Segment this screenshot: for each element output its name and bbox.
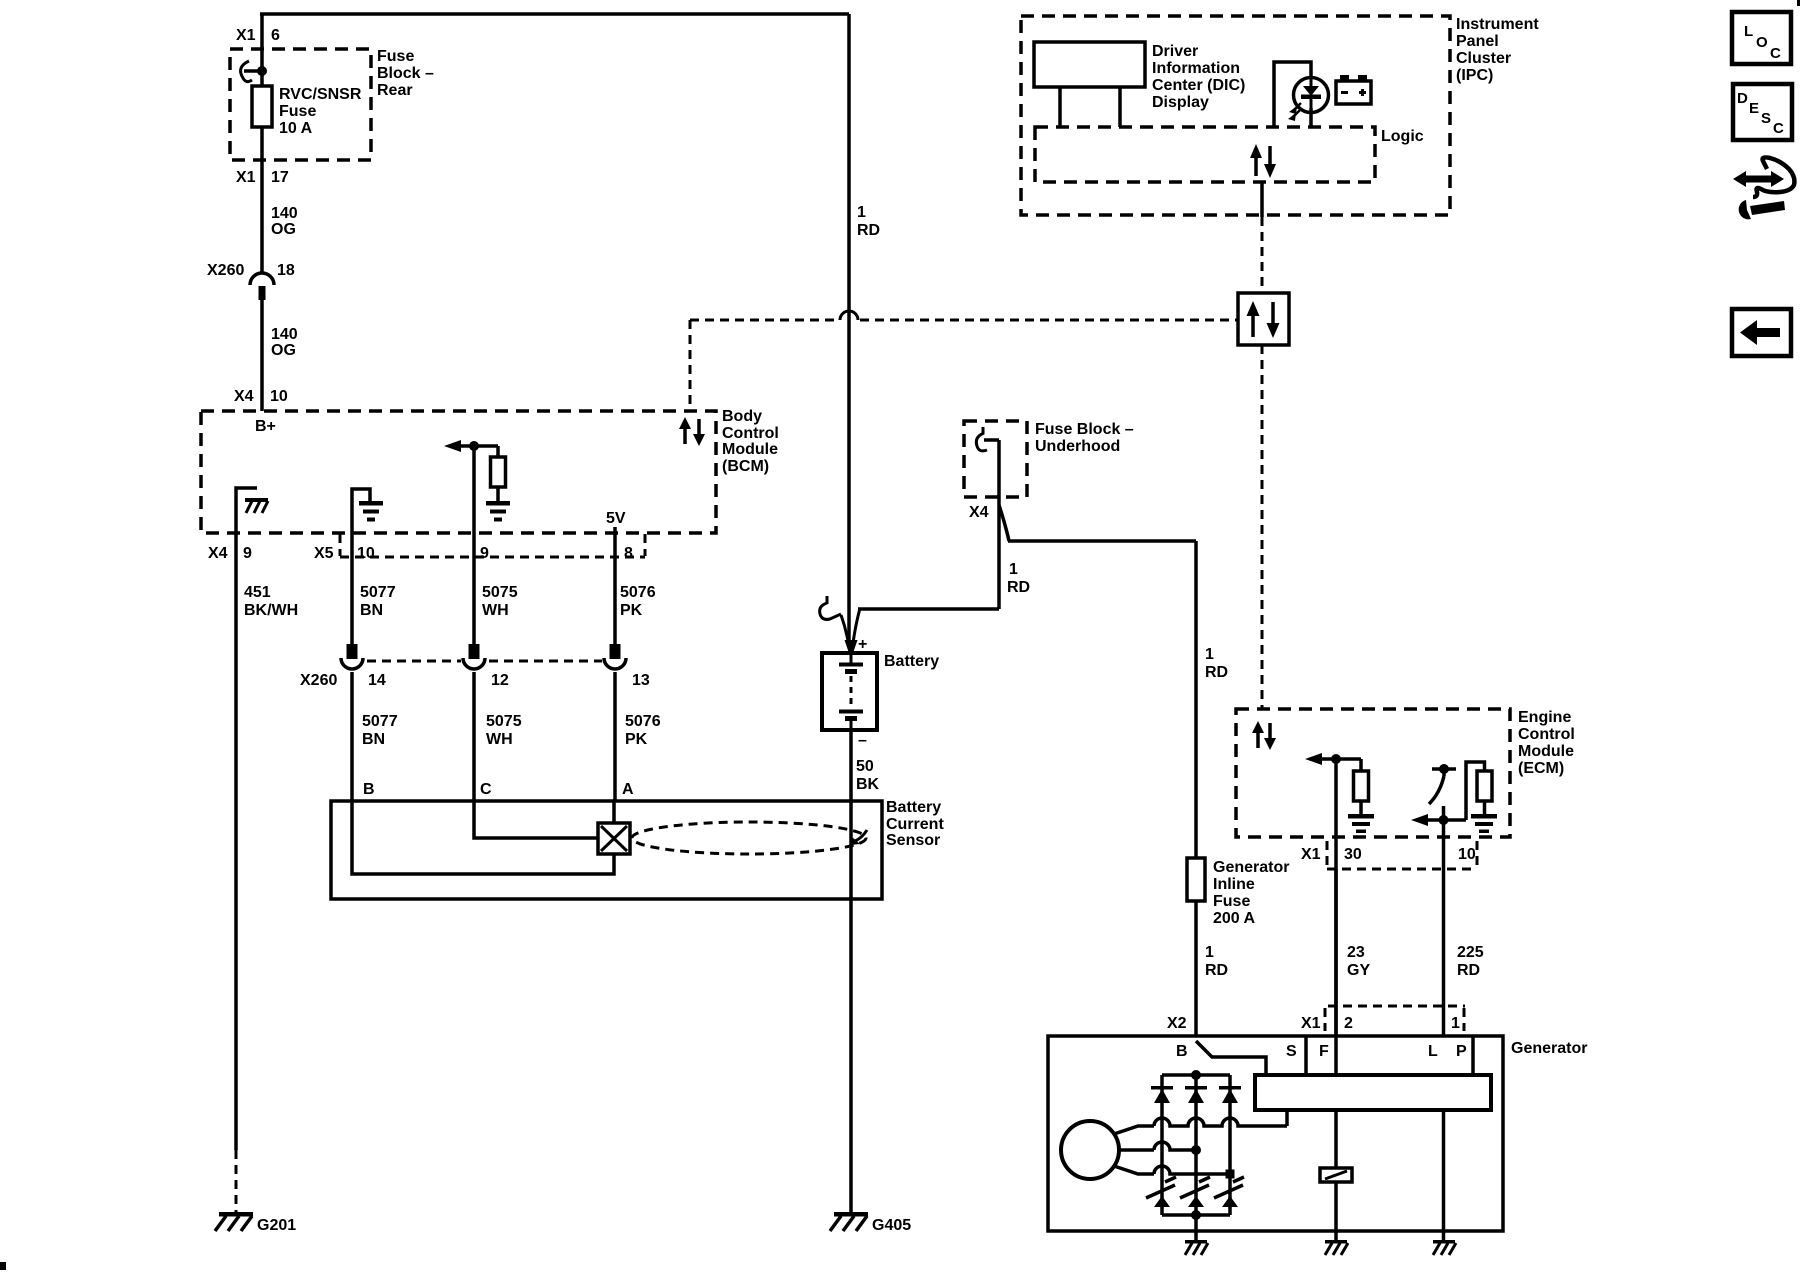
junction dot pin10 node: [1439, 815, 1449, 825]
fuse clip contact: [241, 61, 252, 82]
ground G405: [834, 1212, 868, 1217]
corner artifact bottom left: [0, 1262, 6, 1270]
junction dot pin30 node: [1331, 754, 1341, 764]
sensor current loop (dashed ellipse): [632, 822, 866, 854]
body control module (BCM) dashed box: [201, 411, 716, 533]
svg-text:S: S: [1286, 1043, 1297, 1060]
wire: DIC display legs: [1058, 87, 1062, 127]
ground G201: [219, 1212, 253, 1217]
svg-text:14: 14: [368, 672, 386, 689]
svg-text:–: –: [858, 732, 867, 749]
svg-text:BN: BN: [360, 602, 383, 619]
svg-text:X1: X1: [236, 169, 256, 186]
svg-text:Fuse: Fuse: [377, 48, 414, 65]
svg-text:Cluster: Cluster: [1456, 50, 1511, 67]
wire: B to regulator: [1196, 1041, 1266, 1075]
icon back arrow: [1732, 309, 1791, 356]
BCM internal ground (chassis) wire: [236, 488, 257, 533]
svg-text:OG: OG: [271, 221, 296, 238]
svg-text:2: 2: [1344, 1015, 1353, 1032]
BCM sense output arrow: [457, 444, 498, 448]
svg-text:Fuse: Fuse: [1213, 893, 1250, 910]
svg-text:1: 1: [1009, 561, 1018, 578]
generator ground 2: [1325, 1240, 1347, 1244]
ECM second ground symbol: [1471, 814, 1497, 819]
rectifier branch 2: [1194, 1075, 1198, 1215]
ECM switch (regulator control): [1439, 764, 1449, 774]
svg-text:12: 12: [491, 672, 509, 689]
svg-text:PK: PK: [625, 731, 648, 748]
rectifier branch 1: [1160, 1075, 1164, 1215]
svg-text:BK/WH: BK/WH: [244, 602, 298, 619]
svg-text:Information: Information: [1152, 60, 1240, 77]
svg-text:C: C: [1770, 45, 1781, 62]
svg-text:GY: GY: [1347, 962, 1370, 979]
wire: branch to battery: [858, 607, 999, 611]
BCM resistor ground symbol: [486, 501, 510, 506]
svg-text:BK: BK: [856, 776, 880, 793]
generator inline fuse 200 A: [1187, 858, 1205, 901]
svg-text:5077: 5077: [360, 584, 396, 601]
stator phase 1 wire: [1114, 1126, 1154, 1134]
svg-text:WH: WH: [482, 602, 509, 619]
svg-text:RVC/SNSR: RVC/SNSR: [279, 86, 362, 103]
battery G: [822, 653, 877, 730]
sensor internal wire A: [612, 801, 616, 823]
svg-text:G405: G405: [872, 1217, 911, 1234]
ECM serial data arrows: [1256, 731, 1260, 748]
svg-text:5076: 5076: [625, 713, 661, 730]
sensor internal wire B: [352, 801, 614, 874]
svg-text:Generator: Generator: [1213, 859, 1289, 876]
rectifier negative rail: [1162, 1213, 1230, 1217]
svg-text:B: B: [363, 781, 375, 798]
svg-text:140: 140: [271, 205, 298, 222]
wire 451 BK/WH: [234, 533, 238, 1150]
svg-text:X4: X4: [969, 504, 989, 521]
battery B+ junction clip: [826, 596, 829, 604]
svg-text:X1: X1: [1301, 1015, 1321, 1032]
generator ground 1: [1185, 1240, 1207, 1244]
connector X260 dashed strip: [367, 660, 461, 663]
svg-text:225: 225: [1457, 944, 1484, 961]
indicator LED (charge telltale): [1294, 78, 1329, 113]
svg-text:Battery: Battery: [884, 653, 939, 670]
svg-text:5075: 5075: [486, 713, 522, 730]
svg-text:L: L: [1428, 1043, 1438, 1060]
svg-text:RD: RD: [1205, 664, 1228, 681]
svg-text:Rear: Rear: [377, 82, 413, 99]
wire: ECM pin 10 (switch contact): [1442, 806, 1446, 1075]
wire: 5V reference: [613, 527, 617, 645]
junction dot at fuse feed: [257, 66, 267, 76]
wire 5077 BN (lower): [350, 672, 354, 801]
svg-text:Current: Current: [886, 816, 944, 833]
svg-text:13: 13: [632, 672, 650, 689]
svg-text:(IPC): (IPC): [1456, 67, 1493, 84]
connector X260 pin 13: [610, 644, 621, 659]
zener diode Z3: [1222, 1196, 1238, 1207]
svg-text:C: C: [480, 781, 492, 798]
svg-text:X260: X260: [207, 262, 244, 279]
rectifier branch 3: [1228, 1075, 1232, 1215]
connector X260 pin 12: [469, 644, 480, 659]
serial data link box: [1238, 293, 1289, 345]
svg-text:5077: 5077: [362, 713, 398, 730]
svg-text:X1: X1: [1301, 846, 1321, 863]
svg-text:1: 1: [1205, 944, 1214, 961]
svg-text:1: 1: [1451, 1015, 1460, 1032]
stator phase 2 wire: [1119, 1148, 1154, 1152]
svg-text:9: 9: [243, 545, 252, 562]
field winding (slashed box): [1320, 1168, 1352, 1182]
corner artifact top right: [1797, 0, 1800, 6]
svg-text:5075: 5075: [482, 584, 518, 601]
svg-text:X1: X1: [236, 27, 256, 44]
svg-text:B+: B+: [255, 418, 276, 435]
wire: ECM pin 30 output: [1334, 759, 1338, 1075]
svg-text:X5: X5: [314, 545, 334, 562]
svg-text:P: P: [1456, 1043, 1467, 1060]
svg-text:1: 1: [857, 204, 866, 221]
svg-text:Center (DIC): Center (DIC): [1152, 77, 1245, 94]
svg-text:Control: Control: [1518, 726, 1575, 743]
svg-text:451: 451: [244, 584, 271, 601]
svg-text:8: 8: [624, 545, 633, 562]
svg-text:Battery: Battery: [886, 799, 941, 816]
battery positive merge arrows: [841, 615, 849, 644]
sensor element (X box): [598, 823, 630, 854]
generator terminal divider P: [1471, 1036, 1475, 1075]
svg-text:B: B: [1176, 1043, 1188, 1060]
svg-text:X2: X2: [1167, 1015, 1187, 1032]
svg-text:Sensor: Sensor: [886, 832, 940, 849]
wire: branch to generator (1 RD): [999, 505, 1009, 541]
ECM second resistor: [1466, 762, 1485, 820]
logic serial data arrows: [1254, 156, 1258, 176]
svg-text:RD: RD: [1205, 962, 1228, 979]
ECM field sense arrow: [1318, 757, 1361, 761]
driver information center (DIC) display: [1034, 42, 1145, 87]
svg-text:D: D: [1737, 90, 1748, 107]
ECM lamp drive arrow: [1424, 818, 1466, 822]
svg-text:RD: RD: [857, 222, 880, 239]
wire: regulator to stator sense: [1285, 1110, 1289, 1126]
zener diode Z1: [1154, 1196, 1170, 1207]
svg-text:10: 10: [1458, 846, 1476, 863]
sensor internal wire C: [474, 801, 598, 838]
svg-text:RD: RD: [1457, 962, 1480, 979]
svg-text:Body: Body: [722, 408, 762, 425]
svg-text:Driver: Driver: [1152, 43, 1198, 60]
svg-text:50: 50: [856, 758, 874, 775]
BCM serial data arrows: [683, 427, 687, 444]
svg-text:BN: BN: [362, 731, 385, 748]
generator ground 3: [1433, 1240, 1455, 1244]
svg-text:L: L: [1744, 23, 1753, 40]
svg-text:(ECM): (ECM): [1518, 760, 1564, 777]
fuse F RVC/SNSR 10 A: [252, 86, 272, 127]
wire: generator B feed: [1194, 901, 1198, 1075]
wire 451 dashed tail: [235, 1150, 238, 1212]
LED light rays: [1294, 103, 1301, 110]
svg-text:F: F: [1319, 1043, 1329, 1060]
wire: L lead through regulator: [1442, 1110, 1446, 1243]
wire 5076 PK (lower): [613, 672, 617, 801]
svg-text:140: 140: [271, 326, 298, 343]
engine control module (ECM) dashed box: [1236, 709, 1510, 837]
fuse block - underhood dashed box: [964, 421, 1027, 497]
svg-text:E: E: [1749, 100, 1759, 117]
BCM internal ground (earth) wire: [352, 489, 370, 533]
wire: serial data to BCM (dashed): [690, 319, 838, 322]
BCM chassis ground symbol: [245, 498, 268, 502]
IPC logic dashed box: [1035, 127, 1375, 182]
wire: rectifier to case ground: [1194, 1215, 1198, 1243]
svg-text:Control: Control: [722, 425, 779, 442]
svg-text:Inline: Inline: [1213, 876, 1255, 893]
connector X260 pin 14 (blade and socket): [347, 644, 358, 659]
svg-text:200 A: 200 A: [1213, 910, 1256, 927]
svg-text:9: 9: [480, 545, 489, 562]
svg-text:18: 18: [277, 262, 295, 279]
svg-text:G201: G201: [257, 1217, 296, 1234]
svg-text:X4: X4: [208, 545, 228, 562]
svg-text:5076: 5076: [620, 584, 656, 601]
ECM pull-up resistor (pin 30): [1359, 759, 1363, 771]
svg-text:Instrument: Instrument: [1456, 16, 1539, 33]
wire: telltale loop: [1274, 62, 1311, 127]
wire 5075 WH (lower): [472, 672, 476, 801]
fuse block - rear (dashed outline): [230, 49, 371, 160]
svg-text:Fuse: Fuse: [279, 103, 316, 120]
icon DESC: [1733, 84, 1792, 140]
battery telltale icon: [1336, 81, 1371, 104]
svg-text:Block –: Block –: [377, 65, 434, 82]
svg-text:PK: PK: [620, 602, 643, 619]
voltage regulator: [1255, 1075, 1491, 1110]
underhood fuse clip: [982, 427, 985, 434]
svg-text:WH: WH: [486, 731, 513, 748]
BCM pull-up resistor R: [496, 446, 500, 457]
wire: fused feed vertical (X1-6 to BCM B+): [260, 14, 264, 272]
svg-text:Underhood: Underhood: [1035, 438, 1120, 455]
svg-text:17: 17: [271, 169, 289, 186]
rectifier positive rail: [1162, 1073, 1230, 1077]
wire 50 BK: [849, 730, 853, 1213]
svg-text:OG: OG: [271, 342, 296, 359]
svg-text:A: A: [622, 781, 634, 798]
svg-text:10: 10: [357, 545, 375, 562]
wire: X4 feed from underhood fuse block: [997, 440, 1001, 609]
svg-text:Generator: Generator: [1511, 1040, 1587, 1057]
svg-text:5V: 5V: [606, 510, 626, 527]
generator terminal divider S|F: [1304, 1036, 1308, 1075]
svg-text:(BCM): (BCM): [722, 458, 769, 475]
wire 5077 BN (upper): [350, 533, 354, 644]
svg-text:S: S: [1761, 110, 1771, 127]
svg-text:Display: Display: [1152, 94, 1209, 111]
svg-text:10 A: 10 A: [279, 120, 313, 137]
diode D1: [1151, 1086, 1173, 1090]
diode D2: [1185, 1086, 1207, 1090]
BCM earth ground symbol: [359, 501, 383, 506]
svg-text:Module: Module: [722, 441, 778, 458]
svg-text:Engine: Engine: [1518, 709, 1571, 726]
svg-text:30: 30: [1344, 846, 1362, 863]
svg-text:X4: X4: [234, 388, 254, 405]
diode D3: [1219, 1086, 1241, 1090]
svg-text:23: 23: [1347, 944, 1365, 961]
wire: BCM sense input vertical: [472, 446, 476, 645]
svg-text:Module: Module: [1518, 743, 1574, 760]
svg-text:6: 6: [271, 27, 280, 44]
junction dot: [469, 441, 479, 451]
stator phase 3 wire: [1114, 1166, 1154, 1174]
battery current sensor box: [331, 801, 882, 899]
svg-text:Logic: Logic: [1381, 128, 1424, 145]
svg-text:Panel: Panel: [1456, 33, 1499, 50]
rotor winding circle: [1061, 1121, 1119, 1179]
generator box: [1048, 1036, 1503, 1231]
instrument panel cluster (IPC) dashed box: [1021, 16, 1450, 215]
wire: field F lead through regulator: [1334, 869, 1338, 1075]
wire: battery positive bus (top horizontal): [260, 12, 849, 16]
svg-text:+: +: [858, 636, 867, 653]
icon LOC: [1732, 12, 1791, 64]
svg-text:X260: X260: [300, 672, 337, 689]
ECM resistor ground symbol: [1348, 814, 1374, 819]
svg-text:C: C: [1773, 120, 1784, 137]
svg-text:Fuse Block –: Fuse Block –: [1035, 421, 1134, 438]
svg-text:RD: RD: [1007, 579, 1030, 596]
wire: serial data from logic: [1260, 182, 1264, 217]
svg-text:O: O: [1756, 34, 1768, 51]
wire: main 1 RD vertical feed: [847, 14, 851, 641]
wire: serial data to ECM (dashed): [1261, 345, 1264, 709]
svg-text:10: 10: [270, 388, 288, 405]
svg-text:1: 1: [1205, 646, 1214, 663]
icon diagnostic (arrow and wrench): [1742, 176, 1775, 183]
zener diode Z2: [1188, 1196, 1204, 1207]
